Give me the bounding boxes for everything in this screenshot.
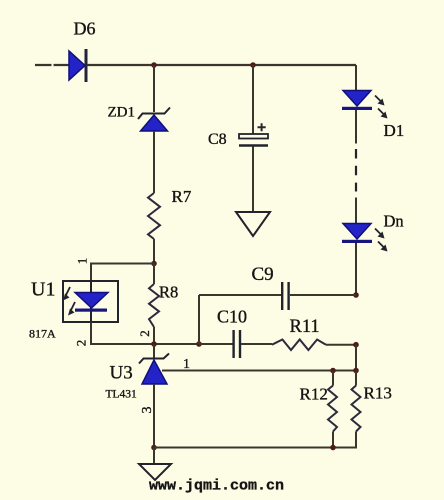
wire right rail top <box>355 65 357 90</box>
node junction feedback left <box>151 341 157 347</box>
svg-text:1: 1 <box>75 258 90 265</box>
svg-text:C10: C10 <box>217 307 247 327</box>
wire D1 to dashes <box>355 110 357 144</box>
wire to ZD1 <box>153 65 155 112</box>
svg-text:R12: R12 <box>300 385 328 404</box>
node junction C9 branch <box>196 341 202 347</box>
resistor R7 <box>148 187 192 239</box>
svg-text:2: 2 <box>74 340 89 347</box>
wire to ground <box>153 448 155 465</box>
resistor R13 <box>352 371 392 449</box>
node junction top-left <box>151 62 157 68</box>
op-amp U3 TL431 <box>106 344 170 401</box>
op-amp U1 optocoupler <box>29 279 118 341</box>
svg-text:D6: D6 <box>74 19 96 39</box>
node junction R7/R8/U1 <box>151 261 157 267</box>
svg-text:R7: R7 <box>172 187 192 206</box>
resistor R12 <box>300 371 338 449</box>
svg-text:ZD1: ZD1 <box>108 105 136 121</box>
svg-text:U3: U3 <box>110 363 133 384</box>
node junction Dn/C9 <box>353 292 359 298</box>
svg-text:C9: C9 <box>252 264 274 285</box>
svg-text:R11: R11 <box>290 317 320 337</box>
zener ZD1 <box>108 105 171 132</box>
wire feedback to C10 <box>199 343 233 345</box>
node junction R13 top <box>353 368 359 374</box>
svg-text:817A: 817A <box>29 327 56 341</box>
diode D6 <box>69 19 96 83</box>
wire input dash <box>35 64 69 66</box>
node junction pin3/ground <box>151 445 157 451</box>
wire U3 pin1 <box>162 370 357 372</box>
resistor R11 <box>272 317 326 350</box>
svg-text:U1: U1 <box>31 279 55 301</box>
wire C10 to R11 <box>241 343 272 345</box>
wire rail to pin1 net <box>355 345 357 371</box>
wire Dn to node <box>355 243 357 295</box>
LED Dn <box>342 212 404 252</box>
svg-text:C8: C8 <box>208 131 227 148</box>
capacitor C10 <box>217 307 247 359</box>
svg-text:R8: R8 <box>159 283 178 302</box>
wire C9 branch drop <box>198 295 200 344</box>
wire R11 to rail <box>326 344 356 346</box>
node junction R12 bottom <box>330 445 336 451</box>
wire U1 pin2 lead <box>91 322 199 344</box>
svg-text:1: 1 <box>183 357 190 372</box>
svg-text:2: 2 <box>137 330 152 337</box>
ground under C8 <box>236 212 270 236</box>
svg-text:www.jqmi.com.cn: www.jqmi.com.cn <box>149 478 284 495</box>
resistor R8 <box>149 264 178 345</box>
capacitor C8 <box>208 65 268 212</box>
wire U3 pin3 <box>153 384 155 448</box>
wire R7 to node <box>153 239 155 264</box>
wire U1 pin1 lead <box>91 264 154 282</box>
node junction R12 top <box>330 368 336 374</box>
LED D1 <box>342 91 404 141</box>
svg-text:Dn: Dn <box>384 212 404 231</box>
capacitor C9 <box>199 264 356 310</box>
wire bottom rail <box>154 432 356 448</box>
wire dashed LED chain <box>355 149 357 192</box>
svg-text:D1: D1 <box>384 121 405 140</box>
ground under U3 <box>139 464 171 480</box>
svg-text:3: 3 <box>140 407 155 414</box>
node junction rail/R11 <box>353 342 359 348</box>
wire dashes to Dn <box>355 198 357 224</box>
svg-text:R13: R13 <box>364 384 392 403</box>
wire top rail <box>87 64 356 66</box>
svg-text:TL431: TL431 <box>106 389 138 401</box>
node junction top C8 <box>250 62 256 68</box>
wire ZD1 to R7 <box>153 131 155 193</box>
